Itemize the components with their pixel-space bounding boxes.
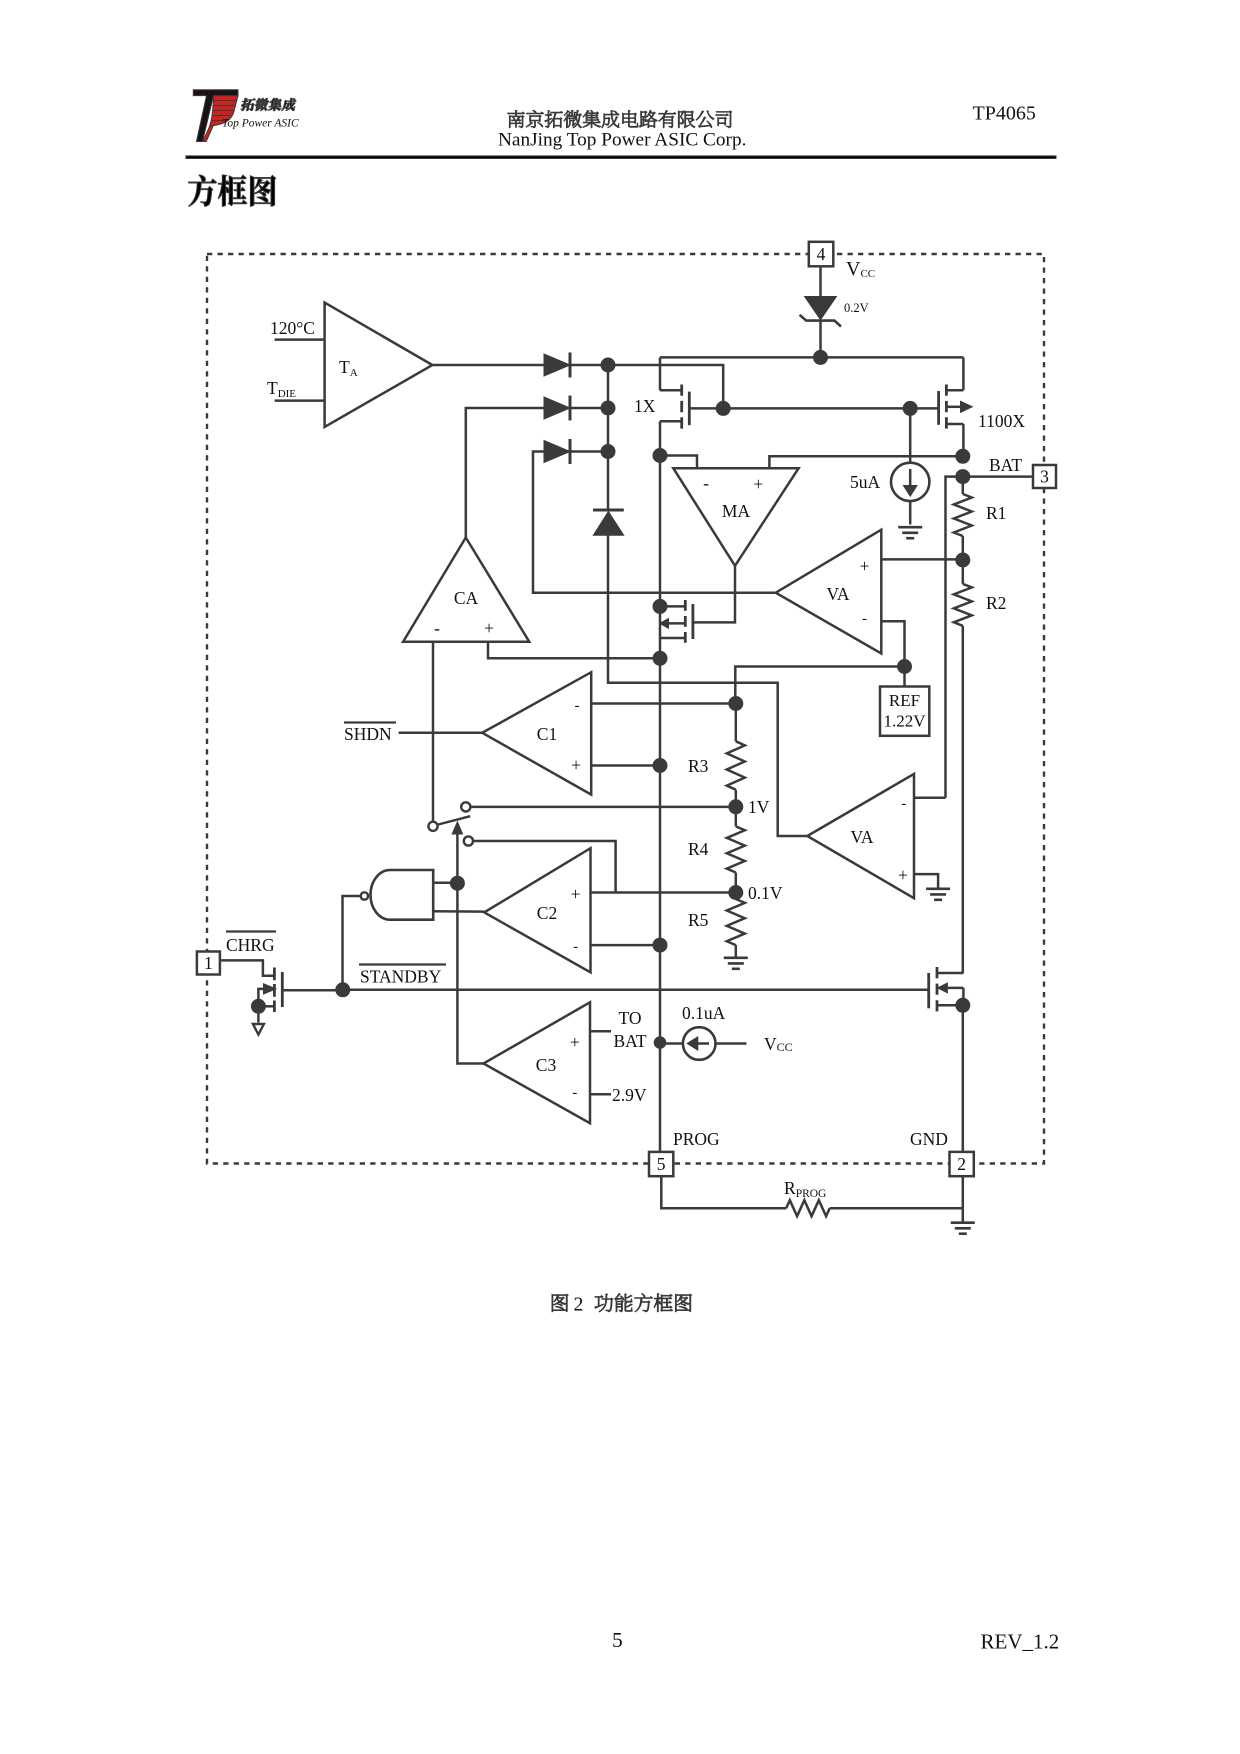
voltage reference REF 1.22V <box>880 687 929 736</box>
junction 1X drain <box>653 449 667 463</box>
junction bus C1 <box>653 759 667 773</box>
wire VA1 output <box>533 452 776 593</box>
label TO BAT <box>613 1008 646 1051</box>
wire pin1 to Q5 drain <box>220 960 273 975</box>
svg-text:R3: R3 <box>688 756 709 776</box>
wire VA1 inverting input <box>881 621 904 686</box>
svg-text:1100X: 1100X <box>978 411 1025 431</box>
wire MA noninverting input <box>769 456 962 468</box>
op-amp TA <box>325 303 433 427</box>
junction 1100X gate node <box>903 401 917 415</box>
wire D3 to node <box>570 450 609 453</box>
svg-text:TA: TA <box>339 357 358 379</box>
junction 1100X drain <box>956 449 970 463</box>
wire NAND input A <box>433 882 457 885</box>
wire 0.1V to switch contact <box>473 841 615 893</box>
wire C1 inverting input <box>591 702 736 705</box>
svg-text:-: - <box>573 939 578 955</box>
wire 120C input <box>275 338 325 341</box>
switch control arrow <box>452 822 462 884</box>
wire BAT to R1 <box>962 477 965 494</box>
wire NAND input B <box>433 910 484 913</box>
nand gate G1 <box>361 870 434 920</box>
wire SHDN to C1 <box>399 732 483 735</box>
svg-text:1X: 1X <box>634 396 656 416</box>
wire BAT to pin3 <box>963 475 1033 478</box>
comparator C3 <box>484 1002 591 1123</box>
wire bus to 0.1uA <box>660 1042 683 1045</box>
svg-text:TO: TO <box>618 1008 641 1028</box>
header company name (Chinese) <box>508 110 732 128</box>
junction node 1V <box>729 800 743 814</box>
resistor R2 <box>954 584 972 626</box>
transistor Q5 (open-drain) <box>258 968 342 1013</box>
svg-text:+: + <box>484 618 494 638</box>
wire zener to VCC rail <box>819 321 822 358</box>
svg-text:1V: 1V <box>748 797 770 817</box>
op-amp MA <box>673 468 798 566</box>
svg-text:1: 1 <box>204 953 213 973</box>
wire divider to R2 <box>962 560 965 584</box>
svg-text:REF: REF <box>889 691 920 710</box>
svg-text:+: + <box>753 474 763 494</box>
wire R3 to 1V node <box>735 790 738 827</box>
svg-text:REV_1.2: REV_1.2 <box>981 1630 1060 1654</box>
wire D4 down to VA2 net <box>608 535 807 836</box>
svg-text:+: + <box>570 1032 580 1052</box>
svg-text:3: 3 <box>1040 467 1049 487</box>
svg-text:+: + <box>898 865 908 885</box>
svg-text:C2: C2 <box>537 903 557 923</box>
resistor R3 <box>727 741 745 789</box>
transistor Q4 (NMOS) <box>929 967 964 1013</box>
comparator C2 <box>484 848 590 972</box>
wire main bus <box>659 421 662 1152</box>
junction node D1 <box>601 358 615 372</box>
wire REF to R3 node <box>735 667 904 704</box>
company logo Top Power ASIC <box>193 90 299 142</box>
figure caption <box>552 1294 568 1312</box>
wire BAT sense down <box>946 477 963 798</box>
diode D4 (vertical) <box>593 510 624 535</box>
comparator C1 <box>482 672 591 794</box>
wire node to gate corner <box>608 365 723 408</box>
wire 0.1uA to VCC <box>716 1042 747 1045</box>
junction VCC rail <box>814 350 828 364</box>
wire VCC rail <box>660 356 963 359</box>
svg-text:5: 5 <box>612 1628 623 1652</box>
pin 1 (CHRG) box <box>197 952 220 975</box>
svg-text:2.9V: 2.9V <box>612 1085 647 1105</box>
svg-text:-: - <box>901 796 906 812</box>
svg-text:NanJing Top Power ASIC Corp.: NanJing Top Power ASIC Corp. <box>498 130 746 151</box>
pin 4 (VCC) box <box>809 242 834 266</box>
wire gate rail <box>723 407 938 410</box>
junction NAND input node <box>450 876 464 890</box>
op-amp VA1 <box>776 530 882 654</box>
wire C2 noninverting input <box>591 891 736 894</box>
ground (GND pin) <box>951 1221 975 1224</box>
transistor 1X (PMOS) <box>660 357 723 430</box>
resistor RPROG <box>786 1200 830 1216</box>
wire D1 to node <box>570 364 609 367</box>
svg-text:R5: R5 <box>688 910 709 930</box>
svg-text:RPROG: RPROG <box>784 1178 826 1200</box>
junction Q4 source <box>956 998 970 1012</box>
wire D2 to node <box>570 407 609 410</box>
wire MA output <box>693 566 735 623</box>
svg-text:-: - <box>862 611 867 627</box>
svg-text:0.1uA: 0.1uA <box>682 1003 726 1023</box>
svg-text:BAT: BAT <box>989 455 1022 475</box>
diode D3 <box>544 441 570 463</box>
junction Q5 source <box>251 999 265 1013</box>
svg-text:VCC: VCC <box>764 1034 793 1054</box>
junction R3 top node <box>729 697 743 711</box>
junction node D3 <box>601 445 615 459</box>
wire diode bus <box>607 365 610 510</box>
wire VA2 inverting input <box>914 796 946 799</box>
svg-text:-: - <box>572 1085 577 1101</box>
op-amp CA <box>403 538 529 642</box>
current source 0.1uA <box>683 1027 716 1060</box>
svg-text:4: 4 <box>817 244 826 264</box>
wire R1 to divider node <box>962 536 965 560</box>
svg-text:-: - <box>575 698 580 714</box>
svg-text:5: 5 <box>657 1154 666 1174</box>
pin 5 (PROG) box <box>649 1152 673 1176</box>
svg-text:PROG: PROG <box>673 1129 720 1149</box>
wire C3 inverting input <box>590 1093 611 1096</box>
wire STANDBY rail <box>342 989 928 992</box>
resistor R1 <box>954 494 972 536</box>
wire C3 output up <box>457 883 483 1063</box>
junction Q3 drain <box>653 599 667 613</box>
wire TDIE input <box>275 399 325 402</box>
svg-text:SHDN: SHDN <box>344 724 392 744</box>
transistor Q3 (PMOS) <box>660 600 693 644</box>
wire node to R3 <box>735 704 738 742</box>
svg-text:CA: CA <box>454 588 479 608</box>
resistor R4 <box>727 826 745 872</box>
wire pin4 to zener <box>819 266 822 296</box>
svg-text:TDIE: TDIE <box>267 378 296 400</box>
wire Q5 to output arrow <box>257 1006 260 1022</box>
svg-text:0.1V: 0.1V <box>748 883 783 903</box>
wire pin5 to RPROG <box>661 1176 786 1208</box>
svg-text:CHRG: CHRG <box>226 935 275 955</box>
wire CA inverting input <box>432 642 435 822</box>
svg-text:-: - <box>703 473 709 493</box>
junction divider node <box>956 553 970 567</box>
svg-text:GND: GND <box>910 1129 948 1149</box>
svg-text:+: + <box>571 884 581 904</box>
wire RPROG to GND <box>830 1207 963 1210</box>
svg-text:+: + <box>860 556 870 576</box>
ground (R5) <box>724 956 748 959</box>
resistor R5 <box>727 899 745 945</box>
page title (Chinese): block diagram <box>189 175 276 207</box>
svg-text:C3: C3 <box>536 1055 557 1075</box>
svg-text:2: 2 <box>957 1154 966 1174</box>
label CHRG <box>226 932 276 956</box>
ground (VA2) <box>926 887 950 890</box>
wire pin2 to ground <box>962 1176 965 1223</box>
pin 2 (GND) box <box>950 1152 974 1176</box>
junction STANDBY rail <box>336 983 350 997</box>
junction Q3 source <box>653 651 667 665</box>
wire CA noninverting input <box>488 642 660 659</box>
wire TA output <box>432 364 544 367</box>
op-amp VA2 <box>807 774 914 898</box>
wire VA1 noninverting input <box>881 558 963 561</box>
junction bus C2 <box>653 938 667 952</box>
svg-text:BAT: BAT <box>613 1031 646 1051</box>
transistor 1100X (PMOS) <box>939 357 973 452</box>
svg-text:R4: R4 <box>688 839 709 859</box>
wire MA inverting input <box>660 456 697 469</box>
wire C1 noninverting input <box>591 764 660 767</box>
svg-text:VA: VA <box>826 584 849 604</box>
wire R5 to ground <box>735 945 738 958</box>
wire 5uA to ground <box>909 501 912 524</box>
svg-text:2: 2 <box>574 1293 584 1315</box>
diode D2 <box>544 397 570 419</box>
current source 5uA <box>891 463 929 501</box>
svg-text:Top Power ASIC: Top Power ASIC <box>222 118 299 130</box>
junction BAT node <box>956 470 970 484</box>
junction node 0.1V <box>729 886 743 900</box>
zener diode D5 0.2V <box>800 297 841 327</box>
svg-text:0.2V: 0.2V <box>844 301 869 315</box>
wire VA2 noninverting input <box>914 874 938 889</box>
svg-text:R1: R1 <box>986 503 1006 523</box>
svg-text:+: + <box>571 755 581 775</box>
svg-text:5uA: 5uA <box>850 472 881 492</box>
svg-text:-: - <box>434 618 440 638</box>
wire R2 down to Q4 drain <box>962 626 965 973</box>
pin 3 (BAT) box <box>1033 465 1056 488</box>
ground (5uA) <box>898 526 922 529</box>
wire Q4 source to pin2 <box>962 1005 965 1152</box>
wire C3 noninverting input <box>590 1030 611 1033</box>
svg-text:1.22V: 1.22V <box>883 712 926 731</box>
svg-text:TP4065: TP4065 <box>973 103 1036 125</box>
label SHDN <box>344 723 396 745</box>
svg-text:120°C: 120°C <box>270 318 315 338</box>
svg-text:VA: VA <box>850 827 873 847</box>
IC boundary dashed box <box>207 254 1044 1164</box>
output arrow (CHRG) <box>253 1024 264 1035</box>
switch S1 <box>428 802 473 845</box>
svg-text:MA: MA <box>722 501 751 521</box>
svg-text:VCC: VCC <box>846 258 875 280</box>
wire gate node to 5uA <box>909 408 912 462</box>
label STANDBY <box>359 965 446 987</box>
wire CA output up <box>466 408 544 538</box>
junction bus TO-BAT <box>654 1037 666 1049</box>
wire C2 inverting input <box>591 944 661 947</box>
svg-text:C1: C1 <box>537 724 557 744</box>
junction REF node <box>898 660 912 674</box>
wire R4 to 0.1V node <box>735 873 738 900</box>
svg-text:R2: R2 <box>986 593 1006 613</box>
wire NAND output <box>343 896 361 990</box>
diode D1 <box>544 354 570 376</box>
svg-text:STANDBY: STANDBY <box>360 967 442 987</box>
junction 1X gate <box>716 401 730 415</box>
junction node D2 <box>601 401 615 415</box>
header rule <box>186 156 1056 159</box>
wire 1V to switch contact <box>471 806 736 809</box>
